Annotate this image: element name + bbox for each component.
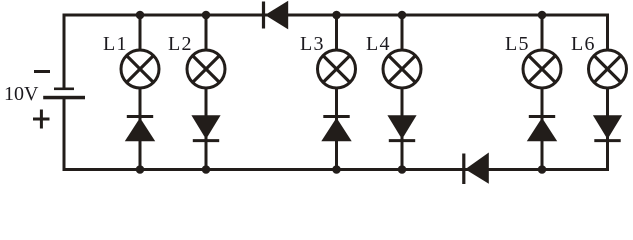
lamp L4 bbox=[383, 50, 421, 88]
lamp L6 bbox=[589, 50, 627, 88]
diode under L5 (points up, cathode bar on top) bbox=[527, 117, 557, 142]
label 10V bbox=[4, 83, 39, 105]
wire: L2 branch top lead bbox=[205, 15, 208, 50]
battery positive lead wire bbox=[63, 97, 66, 171]
diode under L4 (points down, cathode bar below) bbox=[387, 115, 416, 140]
label L5 bbox=[505, 33, 530, 55]
label L3 bbox=[300, 33, 325, 55]
wire: L3 branch top lead bbox=[335, 15, 338, 50]
svg-text:L2: L2 bbox=[168, 33, 193, 55]
svg-text:10V: 10V bbox=[4, 83, 39, 105]
node: bottom junction of L4 branch bbox=[398, 165, 407, 174]
wire: L2 branch bottom lead bbox=[205, 88, 208, 170]
label L1 bbox=[103, 33, 128, 55]
diode under L2 (points down, cathode bar below) bbox=[191, 115, 220, 140]
lamp L2 bbox=[187, 50, 225, 88]
wire: L1 branch top lead bbox=[139, 15, 142, 50]
wire: L6 branch top lead (right edge) bbox=[606, 14, 609, 51]
label L4 bbox=[366, 33, 391, 55]
diode on bottom bus (points left, cathode bar left) bbox=[464, 153, 489, 185]
diode under L6 (points down, cathode bar below) bbox=[593, 115, 622, 140]
svg-text:L5: L5 bbox=[505, 33, 530, 55]
battery plus sign bbox=[33, 110, 50, 129]
wire: top bus, top diode to L6 corner bbox=[265, 14, 609, 17]
wire: L5 branch bottom lead bbox=[541, 88, 544, 170]
node: top junction of L3 branch bbox=[332, 11, 341, 20]
diode under L3 (points up, cathode bar on top) bbox=[321, 117, 351, 142]
label L6 bbox=[571, 33, 596, 55]
svg-text:L3: L3 bbox=[300, 33, 325, 55]
wire: L6 branch bottom lead (right edge) bbox=[606, 88, 609, 171]
lamp L1 bbox=[121, 50, 159, 88]
node: bottom junction of L1 branch bbox=[136, 165, 145, 174]
node: bottom junction of L5 branch bbox=[538, 165, 547, 174]
wire: L4 branch top lead bbox=[401, 15, 404, 50]
node: top junction of L2 branch bbox=[202, 11, 211, 20]
wire: L5 branch top lead bbox=[541, 15, 544, 50]
svg-text:L6: L6 bbox=[571, 33, 596, 55]
lamp L3 bbox=[318, 50, 356, 88]
wire: top bus, battery to top diode bbox=[63, 14, 264, 17]
wire: L1 branch bottom lead bbox=[139, 88, 142, 170]
node: bottom junction of L3 branch bbox=[332, 165, 341, 174]
svg-text:L1: L1 bbox=[103, 33, 128, 55]
wire: L4 branch bottom lead bbox=[401, 88, 404, 170]
battery negative lead wire bbox=[63, 14, 66, 90]
wire: bottom bus, bottom diode to L6 corner bbox=[465, 168, 609, 171]
diode under L1 (points up, cathode bar on top) bbox=[125, 117, 155, 142]
diode on top bus (points left, cathode bar left) bbox=[264, 1, 289, 30]
battery minus sign bbox=[34, 70, 50, 73]
node: top junction of L5 branch bbox=[538, 11, 547, 20]
label L2 bbox=[168, 33, 193, 55]
node: top junction of L1 branch bbox=[136, 11, 145, 20]
battery 10V (short negative plate, long positive plate) bbox=[43, 88, 85, 100]
lamp L5 bbox=[523, 50, 561, 88]
wire: L3 branch bottom lead bbox=[335, 88, 338, 170]
wire: bottom bus, battery to bottom diode bbox=[63, 168, 464, 171]
node: top junction of L4 branch bbox=[398, 11, 407, 20]
node: bottom junction of L2 branch bbox=[202, 165, 211, 174]
svg-text:L4: L4 bbox=[366, 33, 391, 55]
